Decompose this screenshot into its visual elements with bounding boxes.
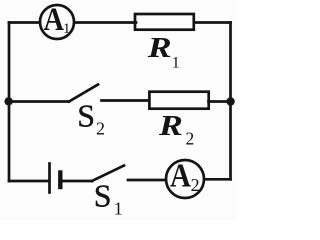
svg-text:2: 2	[191, 175, 200, 195]
svg-text:1: 1	[172, 55, 180, 72]
svg-text:2: 2	[186, 129, 195, 149]
svg-text:1: 1	[114, 199, 123, 219]
svg-text:S: S	[94, 178, 112, 214]
svg-text:A: A	[170, 156, 191, 194]
svg-text:A: A	[44, 1, 64, 37]
svg-text:R: R	[147, 32, 172, 63]
svg-text:2: 2	[96, 119, 105, 139]
svg-text:S: S	[77, 98, 95, 134]
svg-text:1: 1	[63, 21, 71, 37]
svg-text:R: R	[158, 110, 183, 141]
